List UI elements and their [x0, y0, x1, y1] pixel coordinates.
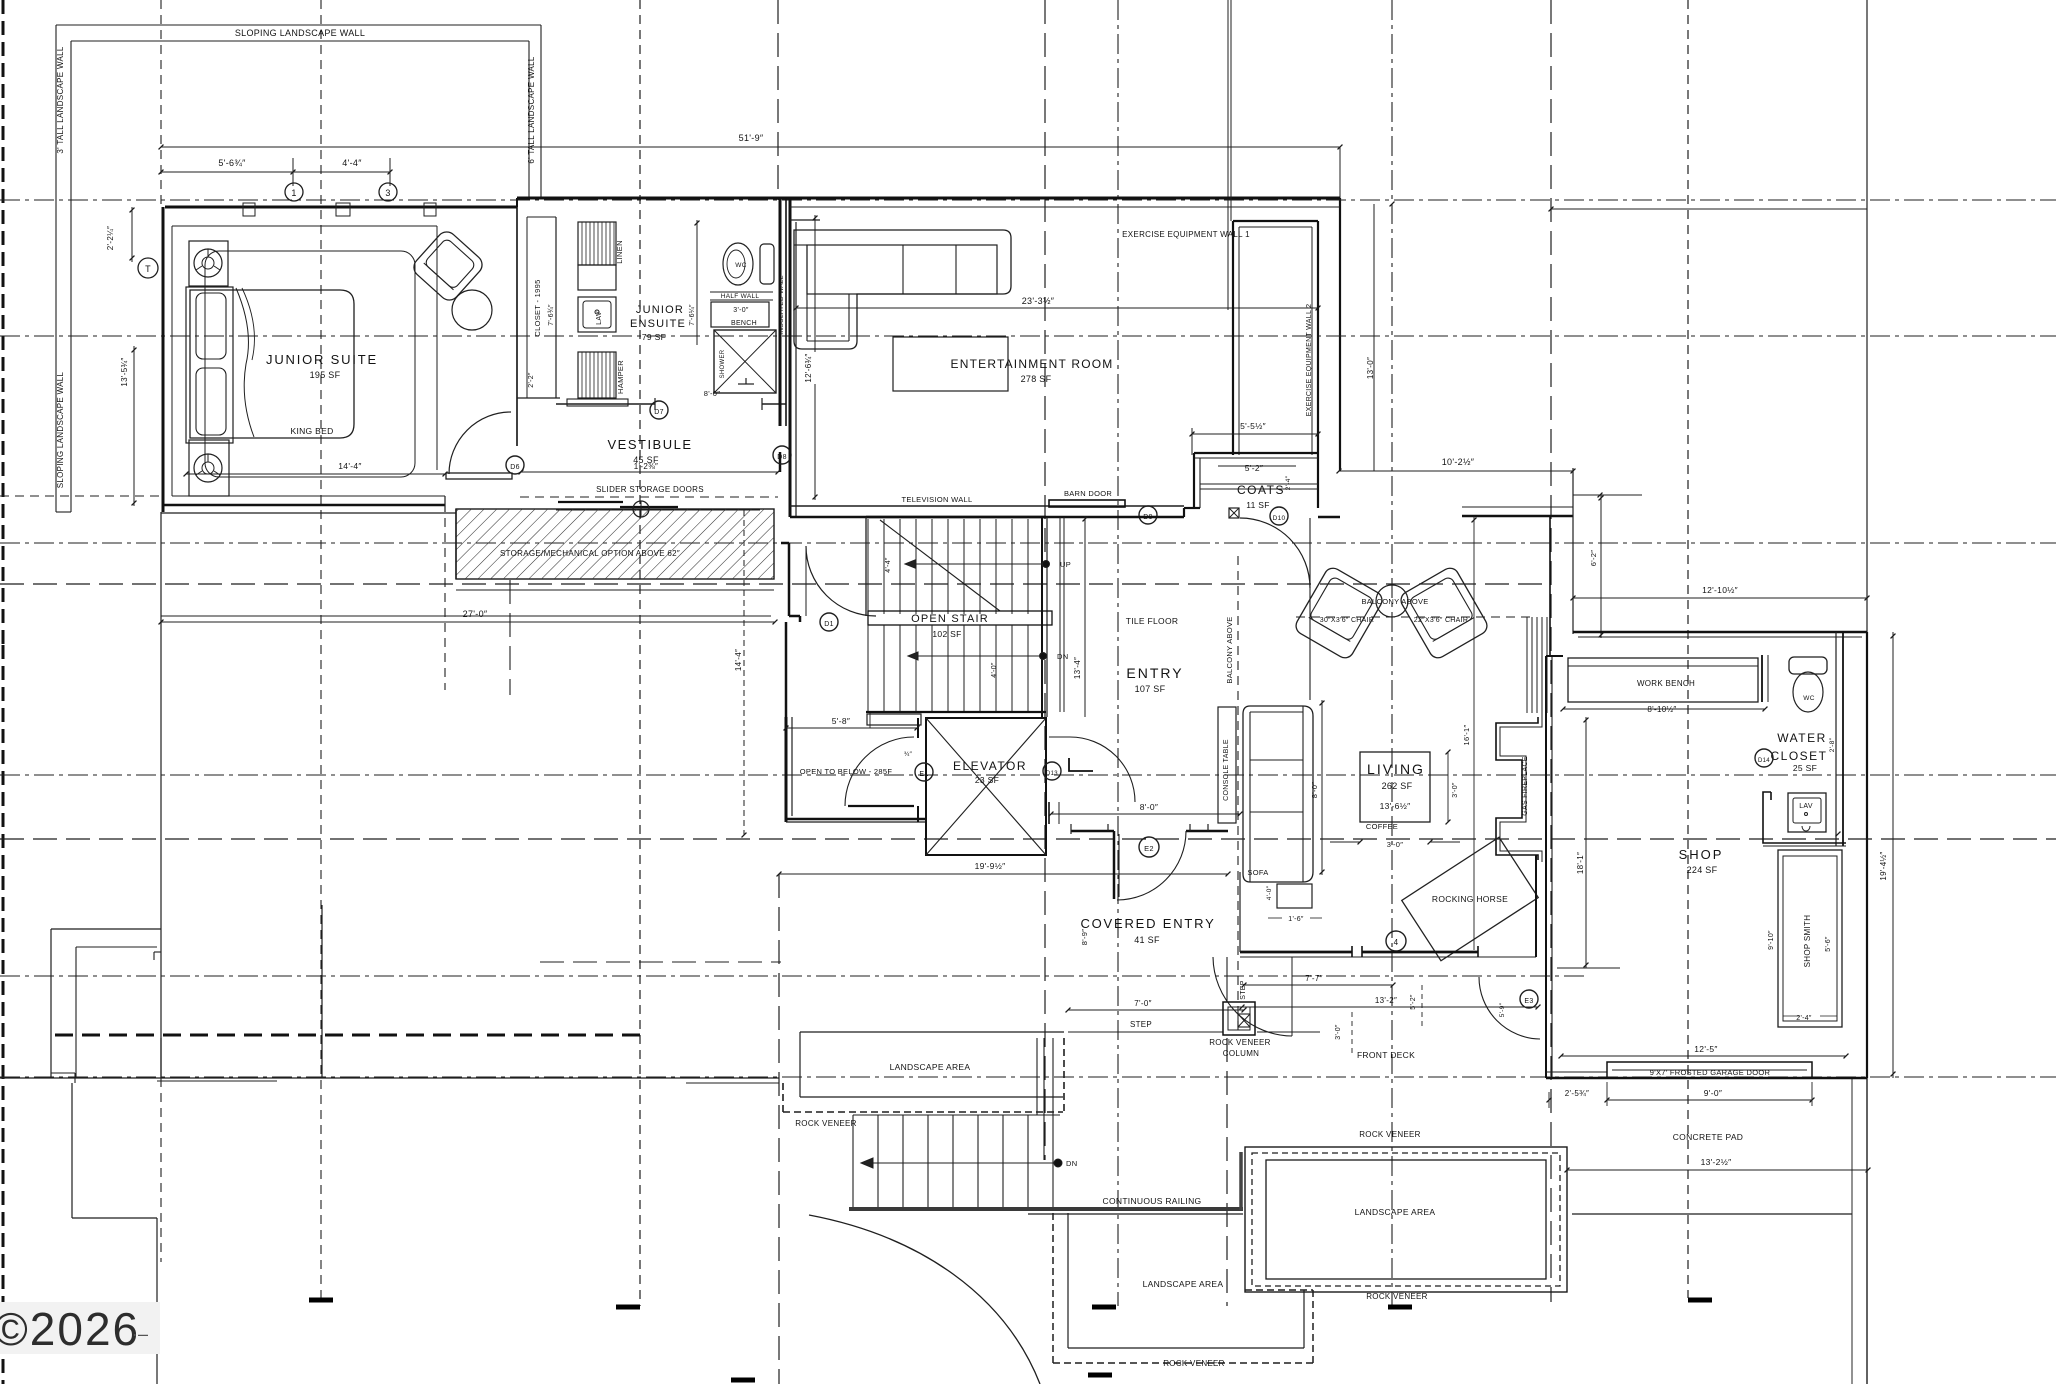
svg-text:ELEVATOR: ELEVATOR [953, 759, 1027, 773]
svg-text:9'X7' FROSTED GARAGE DOOR: 9'X7' FROSTED GARAGE DOOR [1650, 1068, 1771, 1077]
svg-text:27'-0″: 27'-0″ [463, 609, 488, 619]
svg-text:19'-4½″: 19'-4½″ [1879, 851, 1888, 880]
svg-text:DN: DN [1057, 652, 1068, 661]
svg-text:ROCK VENEER: ROCK VENEER [1359, 1130, 1421, 1139]
svg-text:JUNIOR SUITE: JUNIOR SUITE [266, 352, 378, 367]
svg-text:ROCK VENEER: ROCK VENEER [1366, 1292, 1428, 1301]
svg-text:SOFA: SOFA [1247, 868, 1268, 877]
svg-text:JUNIOR: JUNIOR [636, 304, 684, 316]
svg-text:3'-0″: 3'-0″ [733, 307, 749, 314]
svg-text:7'-0″: 7'-0″ [1134, 999, 1151, 1008]
svg-text:CONSOLE TABLE: CONSOLE TABLE [1223, 739, 1230, 801]
svg-text:HAMPER: HAMPER [616, 360, 625, 394]
svg-text:2'-5¾″: 2'-5¾″ [1565, 1089, 1589, 1098]
svg-text:5'-8″: 5'-8″ [832, 716, 850, 726]
svg-text:ROCK VENEER: ROCK VENEER [1209, 1038, 1271, 1047]
svg-text:278 SF: 278 SF [1021, 374, 1052, 384]
svg-text:E2: E2 [1144, 844, 1154, 853]
svg-text:9'-10″: 9'-10″ [1768, 930, 1775, 950]
svg-text:LANDSCAPE AREA: LANDSCAPE AREA [890, 1062, 971, 1072]
svg-text:41 SF: 41 SF [1134, 935, 1160, 945]
svg-text:COATS: COATS [1237, 483, 1285, 497]
svg-text:19'-9½″: 19'-9½″ [975, 861, 1006, 871]
svg-text:1'-6″: 1'-6″ [1288, 916, 1304, 923]
svg-text:2'-2″: 2'-2″ [528, 372, 535, 388]
svg-text:·–: ·– [132, 1324, 149, 1344]
svg-text:13'-2″: 13'-2″ [1375, 996, 1397, 1005]
svg-text:BALCONY ABOVE: BALCONY ABOVE [1361, 597, 1428, 606]
svg-text:COVERED ENTRY: COVERED ENTRY [1080, 916, 1215, 931]
svg-text:9'-0″: 9'-0″ [1704, 1088, 1722, 1098]
svg-text:3: 3 [385, 188, 390, 198]
svg-text:HALF WALL: HALF WALL [721, 293, 760, 300]
svg-text:ENTRY: ENTRY [1126, 665, 1183, 681]
svg-text:5'-2″: 5'-2″ [1410, 994, 1417, 1010]
svg-text:3'-0″: 3'-0″ [1452, 782, 1459, 798]
svg-text:23'-3½″: 23'-3½″ [1022, 296, 1055, 306]
svg-text:12'-6¾″: 12'-6¾″ [804, 353, 813, 382]
svg-text:D13: D13 [1046, 771, 1058, 777]
svg-text:WC: WC [735, 262, 746, 269]
svg-text:D8: D8 [777, 454, 787, 461]
svg-text:EXERCISE EQUIPMENT WALL 1: EXERCISE EQUIPMENT WALL 1 [1122, 230, 1250, 239]
svg-text:13'-0″: 13'-0″ [1366, 357, 1375, 379]
svg-text:1: 1 [291, 188, 296, 198]
svg-text:STORAGE/MECHANICAL OPTION ABOV: STORAGE/MECHANICAL OPTION ABOVE 62″ [500, 549, 680, 558]
svg-text:BARN DOOR: BARN DOOR [1064, 489, 1112, 498]
svg-text:D1: D1 [824, 621, 834, 628]
svg-text:WATER: WATER [1777, 731, 1827, 745]
svg-text:22″X3'6″ CHAIR: 22″X3'6″ CHAIR [1414, 617, 1468, 624]
svg-text:5'-6¾″: 5'-6¾″ [218, 158, 246, 168]
svg-text:7'-7″: 7'-7″ [1305, 974, 1322, 983]
svg-text:TILE FLOOR: TILE FLOOR [1126, 616, 1179, 626]
svg-text:©2026: ©2026 [0, 1303, 140, 1355]
svg-text:3'-0″: 3'-0″ [1335, 1024, 1342, 1040]
svg-text:CLOSET: CLOSET [1770, 749, 1827, 763]
svg-text:13'-6½″: 13'-6½″ [1380, 801, 1411, 811]
svg-text:224 SF: 224 SF [1687, 865, 1718, 875]
svg-text:D7: D7 [654, 409, 664, 416]
svg-text:STEP: STEP [1130, 1020, 1152, 1029]
svg-text:18'-1″: 18'-1″ [1576, 852, 1585, 874]
svg-text:8'-0″: 8'-0″ [704, 389, 720, 398]
svg-text:195 SF: 195 SF [310, 370, 341, 380]
svg-text:T: T [145, 264, 151, 274]
svg-text:CLOSET - 1995: CLOSET - 1995 [533, 279, 542, 336]
svg-text:UP: UP [1060, 560, 1071, 569]
svg-text:LIVING: LIVING [1367, 761, 1425, 777]
svg-text:8'-9″: 8'-9″ [1080, 929, 1089, 945]
svg-text:LINEN: LINEN [615, 240, 624, 264]
svg-text:5'-5½″: 5'-5½″ [1240, 421, 1266, 431]
svg-text:262 SF: 262 SF [1382, 781, 1413, 791]
svg-text:CONTINUOUS RAILING: CONTINUOUS RAILING [1103, 1196, 1202, 1206]
svg-text:¾″: ¾″ [904, 751, 913, 758]
svg-text:6' TALL LANDSCAPE WALL: 6' TALL LANDSCAPE WALL [527, 56, 536, 164]
svg-text:OPEN STAIR: OPEN STAIR [911, 613, 989, 625]
svg-text:STEP: STEP [1240, 980, 1247, 1000]
svg-text:ROCKING HORSE: ROCKING HORSE [1432, 894, 1508, 904]
svg-text:SLIDER STORAGE DOORS: SLIDER STORAGE DOORS [596, 485, 704, 494]
svg-text:KING BED: KING BED [290, 426, 333, 436]
svg-text:4'-0″: 4'-0″ [991, 662, 998, 678]
svg-text:ENTERTAINMENT ROOM: ENTERTAINMENT ROOM [951, 357, 1114, 371]
svg-text:SHOWER: SHOWER [720, 349, 726, 378]
svg-text:D10: D10 [1273, 515, 1286, 522]
svg-text:ENSUITE: ENSUITE [630, 318, 686, 330]
svg-text:30″X3'6″ CHAIR: 30″X3'6″ CHAIR [1320, 617, 1374, 624]
svg-text:INSULATED WALL: INSULATED WALL [778, 275, 785, 335]
svg-text:5'-6″: 5'-6″ [1825, 936, 1832, 952]
svg-text:10'-2½″: 10'-2½″ [1442, 457, 1475, 467]
svg-text:E1: E1 [919, 771, 928, 778]
svg-text:E3: E3 [1524, 998, 1533, 1005]
svg-text:6'-2″: 6'-2″ [1589, 550, 1598, 566]
svg-text:3'-0″: 3'-0″ [1387, 840, 1403, 849]
svg-text:OPEN TO BELOW - 285F: OPEN TO BELOW - 285F [800, 767, 893, 776]
svg-text:WC: WC [1803, 695, 1814, 702]
svg-text:4'-0″: 4'-0″ [1266, 885, 1273, 900]
svg-text:SLOPING LANDSCAPE WALL: SLOPING LANDSCAPE WALL [56, 371, 65, 488]
svg-text:8'-0″: 8'-0″ [1310, 782, 1319, 798]
svg-text:12'-10½″: 12'-10½″ [1702, 585, 1738, 595]
svg-text:8'-0″: 8'-0″ [1140, 802, 1158, 812]
svg-text:7'-6¼″: 7'-6¼″ [689, 304, 696, 326]
svg-text:EXERCISE EQUIPMENT WALL 2: EXERCISE EQUIPMENT WALL 2 [1306, 304, 1313, 417]
svg-text:D14: D14 [1758, 758, 1770, 764]
svg-text:GAS FIREPLACE: GAS FIREPLACE [1522, 756, 1529, 816]
svg-text:ROCK VENEER: ROCK VENEER [795, 1119, 857, 1128]
svg-text:102 SF: 102 SF [932, 629, 961, 639]
svg-text:CONCRETE PAD: CONCRETE PAD [1673, 1132, 1744, 1142]
svg-text:COLUMN: COLUMN [1223, 1049, 1259, 1058]
svg-text:11 SF: 11 SF [1246, 500, 1270, 510]
svg-text:2'-2¼″: 2'-2¼″ [106, 226, 115, 250]
svg-text:13'-2½″: 13'-2½″ [1701, 1157, 1732, 1167]
svg-text:13'-5¾″: 13'-5¾″ [120, 357, 129, 386]
svg-text:LAV: LAV [1799, 803, 1813, 810]
svg-text:2'-8″: 2'-8″ [1829, 737, 1836, 752]
svg-text:VESTIBULE: VESTIBULE [607, 437, 692, 452]
svg-text:SHOP SMITH: SHOP SMITH [1803, 915, 1812, 968]
svg-text:5'-9″: 5'-9″ [1499, 1002, 1506, 1017]
svg-text:51'-9″: 51'-9″ [739, 133, 764, 143]
svg-text:79 SF: 79 SF [642, 332, 666, 342]
svg-text:WORK BENCH: WORK BENCH [1637, 679, 1695, 688]
svg-text:LANDSCAPE AREA: LANDSCAPE AREA [1355, 1207, 1436, 1217]
svg-text:FRONT DECK: FRONT DECK [1357, 1050, 1415, 1060]
svg-text:ROCK VENEER: ROCK VENEER [1163, 1359, 1225, 1368]
svg-text:2'-4″: 2'-4″ [1285, 475, 1292, 490]
svg-text:25 SF: 25 SF [1793, 763, 1817, 773]
svg-text:4: 4 [1394, 938, 1399, 947]
svg-text:14'-4″: 14'-4″ [338, 461, 361, 471]
svg-text:DN: DN [1066, 1159, 1077, 1168]
svg-text:TELEVISION WALL: TELEVISION WALL [902, 495, 973, 504]
svg-text:D6: D6 [510, 464, 520, 471]
svg-text:LANDSCAPE AREA: LANDSCAPE AREA [1143, 1279, 1224, 1289]
svg-text:4'-4″: 4'-4″ [885, 557, 892, 573]
svg-text:BENCH: BENCH [731, 320, 757, 327]
svg-text:7'-6¾″: 7'-6¾″ [548, 304, 555, 326]
svg-text:5'-2″: 5'-2″ [1245, 463, 1263, 473]
svg-text:BALCONY ABOVE: BALCONY ABOVE [1225, 616, 1234, 683]
svg-text:1'-2⅜″: 1'-2⅜″ [634, 462, 658, 471]
svg-text:107 SF: 107 SF [1135, 684, 1166, 694]
svg-text:SLOPING LANDSCAPE WALL: SLOPING LANDSCAPE WALL [235, 28, 365, 38]
svg-text:COFFEE: COFFEE [1366, 822, 1398, 831]
svg-text:4'-4″: 4'-4″ [342, 158, 362, 168]
svg-text:12'-5″: 12'-5″ [1694, 1044, 1717, 1054]
svg-text:14'-4″: 14'-4″ [734, 649, 743, 671]
svg-text:23 SF: 23 SF [975, 775, 999, 785]
svg-text:SHOP: SHOP [1679, 847, 1724, 862]
svg-text:3' TALL LANDSCAPE WALL: 3' TALL LANDSCAPE WALL [56, 46, 65, 154]
svg-text:LAV: LAV [596, 311, 603, 325]
svg-text:13'-4″: 13'-4″ [1073, 657, 1082, 679]
svg-text:16'-1″: 16'-1″ [1462, 725, 1471, 746]
